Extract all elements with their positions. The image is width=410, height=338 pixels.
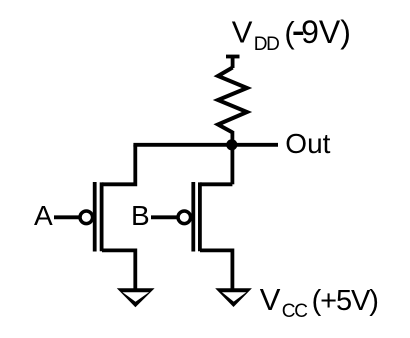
svg-text:V: V — [232, 15, 253, 50]
svg-text:CC: CC — [282, 301, 307, 322]
VCC arrow at Q2 source — [215, 288, 252, 307]
node VCC label — [260, 282, 378, 322]
wire A to gate bubble — [54, 215, 80, 219]
wire Q2 drain to node — [200, 182, 232, 186]
node VDD label — [232, 14, 351, 55]
transistor Q1 gate bubble — [80, 211, 93, 224]
transistor Q1 — [95, 182, 102, 252]
svg-text:DD: DD — [254, 34, 279, 55]
wire Out net horizontal — [133, 143, 278, 147]
svg-text:A: A — [34, 200, 53, 231]
svg-text:V: V — [260, 282, 281, 317]
svg-text:B: B — [131, 200, 150, 231]
node junction dot — [226, 139, 237, 150]
transistor Q2 — [193, 182, 200, 252]
svg-text:Out: Out — [285, 128, 330, 159]
VDD terminal — [226, 57, 240, 69]
svg-text:9V): 9V) — [301, 14, 351, 50]
wire Q2 source down — [200, 250, 232, 289]
wire Q1 drain up to Out net — [102, 145, 135, 185]
wire resistor to node and down to Q2 drain — [230, 131, 234, 184]
VCC arrow at Q1 source — [117, 288, 155, 307]
resistor R1 — [218, 68, 247, 133]
transistor Q2 gate bubble — [178, 211, 191, 224]
wire B to gate bubble — [151, 215, 178, 219]
wire Q1 source down — [102, 250, 135, 289]
svg-text:(+5V): (+5V) — [312, 285, 378, 317]
